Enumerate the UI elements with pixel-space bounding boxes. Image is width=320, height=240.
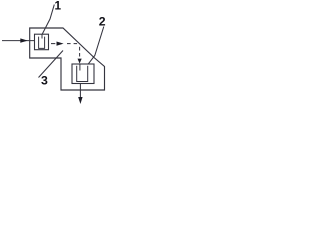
dashed flow arrowhead into U2 — [78, 59, 82, 64]
dashed flow wire vertical dash a — [79, 47, 81, 51]
leader line for label 2 — [88, 27, 103, 64]
dashed flow wire vertical dash b — [79, 53, 81, 57]
component U1 box (item 1 outer rectangle) — [35, 34, 49, 50]
component U2 box (item 2 outer rectangle) — [72, 64, 94, 84]
dashed flow wire horizontal dash b — [67, 43, 71, 45]
component U2 inner cup — [77, 66, 88, 82]
inlet flow arrowhead — [20, 38, 28, 42]
svg-text:3: 3 — [41, 74, 48, 88]
outlet arrowhead — [78, 97, 82, 104]
leader line for label 3 — [39, 51, 64, 78]
component U1 inner cup — [39, 37, 45, 49]
dashed flow wire horizontal dash c — [74, 43, 78, 45]
component U1 plunger — [41, 34, 43, 38]
component U2 plunger — [79, 64, 81, 71]
enclosure outline (zone 3 boundary) — [30, 28, 105, 90]
svg-text:1: 1 — [55, 0, 62, 13]
dashed flow wire horizontal dash a — [51, 43, 55, 45]
leader line for label 1 — [42, 5, 54, 35]
outlet wire (below U2) — [79, 84, 81, 101]
svg-text:2: 2 — [99, 14, 106, 28]
dashed flow arrowhead (mid) — [57, 42, 64, 46]
inlet flow wire (left horizontal) — [2, 40, 35, 42]
